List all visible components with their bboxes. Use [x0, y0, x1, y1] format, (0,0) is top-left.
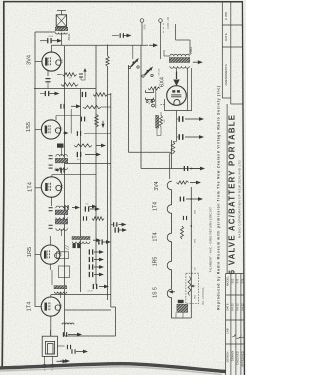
chain junction dots	[190, 198, 192, 200]
wire 240V lead down	[141, 22, 143, 45]
wire jumper y168	[141, 168, 200, 170]
wire rail x107	[107, 45, 109, 57]
capacitor C20	[63, 332, 64, 337]
wire y310 bottom horizontal	[65, 309, 112, 311]
wire 3V4 grid lead	[35, 61, 42, 63]
tube V4 1S5	[41, 120, 60, 139]
wire 1R5 bottom lead	[49, 264, 51, 270]
wire terminal2 lead down	[160, 22, 162, 59]
border frame left	[2, 1, 4, 368]
wire y163 horizontal	[65, 163, 112, 165]
resistor R5	[95, 115, 99, 128]
oscillator coil box	[59, 266, 70, 278]
wire cluster link	[70, 109, 72, 134]
terminal A	[43, 364, 46, 367]
detector arrow	[96, 145, 102, 147]
chassis arrow A10	[89, 206, 93, 208]
resistor R2	[61, 83, 78, 87]
filament chain right rail	[190, 187, 192, 318]
tube V1 1T4	[41, 297, 60, 316]
capacitor C34 with left arrow	[60, 167, 61, 172]
resistor R4	[83, 105, 101, 108]
capacitor C31	[60, 104, 61, 109]
power transformer T4 core	[169, 58, 190, 63]
capacitor C10 trimmer	[49, 225, 53, 226]
output transformer T1 secondary coil	[56, 33, 68, 34]
HT dropper resistor R8	[160, 115, 163, 126]
resistor R3	[93, 93, 108, 97]
AVC capacitor C27	[178, 300, 184, 303]
capacitor C2 below 3V4	[46, 78, 51, 79]
capacitor C4	[82, 92, 83, 97]
wire 3V4 bottom lead	[47, 71, 49, 76]
chassis arrow A1	[71, 105, 77, 107]
IF transformer T3 core2	[55, 219, 68, 224]
grid capacitor C33	[57, 144, 64, 148]
battery terminals B	[152, 99, 155, 102]
capacitor C14 with arrow	[89, 249, 90, 254]
terminal E	[51, 364, 54, 367]
wire jumper y152	[128, 151, 171, 153]
capacitor C17 with arrow	[89, 272, 90, 277]
wire V1 grid lead	[35, 306, 41, 308]
fuse link box	[146, 90, 154, 93]
output transformer T1 core	[55, 27, 68, 30]
resistor R7 grid leak	[92, 217, 104, 221]
resistor R1	[63, 73, 77, 77]
capacitor C11 with arrow	[85, 206, 86, 211]
signature squiggle 1	[232, 333, 237, 337]
rectifier cathode arrow	[176, 72, 178, 80]
detector resistor R6	[74, 144, 92, 147]
wire 1T4 top lead	[51, 175, 53, 177]
volume control wiper arrow	[193, 285, 196, 287]
capacitor C18 padder with arrow	[93, 284, 94, 289]
loop aerial L1 outer	[42, 336, 57, 356]
chassis arrow A2	[76, 351, 84, 353]
border frame bottom band	[0, 364, 226, 372]
chain capacitor C38	[183, 216, 184, 220]
capacitor C19 grid	[83, 216, 84, 220]
margin divider line	[226, 104, 228, 274]
wire 1T4 grid lead	[35, 187, 41, 189]
wire rail x80	[80, 89, 82, 293]
chain capacitor C26 with arrow	[180, 197, 181, 202]
chain resistor R13	[181, 226, 184, 239]
wire rail jog to x115	[111, 306, 116, 308]
wire rail x141	[140, 45, 142, 168]
coil L4 grid coil	[62, 323, 74, 325]
wire 3V4 plate lead	[50, 45, 52, 52]
title block frame	[225, 274, 227, 375]
heater path resistor R16	[171, 142, 175, 154]
signature squiggle 2	[237, 335, 241, 340]
wire chain bottom link	[111, 224, 113, 226]
wire switch feed	[132, 45, 134, 59]
wire top horizontal y46	[51, 44, 148, 46]
chain top arrow	[190, 182, 197, 184]
capacitor C9 trimmer	[49, 207, 53, 208]
capacitor C15 with arrow	[89, 257, 90, 262]
mains terminal 240V	[140, 19, 144, 23]
wire 1S5 plate lead	[55, 116, 57, 121]
capacitor C39 with up arrow	[84, 72, 86, 77]
capacitor C7 trimmer	[49, 155, 53, 156]
wire T3 bottom lead	[61, 229, 63, 236]
volume control dashed box	[186, 273, 199, 303]
wire filter chain	[156, 128, 158, 136]
wire y294 horizontal	[51, 294, 111, 296]
wire 1R5 grid lead	[35, 254, 41, 256]
capacitor C5	[81, 117, 82, 122]
chassis arrow A3	[60, 360, 66, 362]
resistor R17 inline	[106, 56, 109, 67]
capacitor C12 with arrow	[115, 227, 116, 232]
wire heater path down	[170, 153, 173, 155]
filament chain left rail with humps	[167, 181, 171, 318]
dashes near 6X4	[161, 104, 162, 106]
wire battery rail	[155, 86, 157, 108]
wire V1 top lead	[50, 295, 52, 297]
border frame top	[4, 1, 243, 3]
IF transformer T2 top coil	[56, 155, 68, 157]
IF transformer T3 mid coil	[56, 217, 68, 219]
chain bottom arrow	[172, 291, 175, 293]
chassis arrow A8	[185, 136, 200, 138]
signature squiggle 3	[242, 336, 244, 338]
chassis arrow A7	[185, 118, 200, 120]
paper background	[0, 0, 246, 375]
wire B+ rail x128	[127, 65, 129, 152]
power transformer T4 primary	[170, 54, 189, 56]
oscillator coil L3 core	[54, 286, 67, 289]
bias resistor R11h hatched	[156, 115, 159, 128]
capacitor C3 with chassis arrow	[40, 93, 45, 95]
AVC resistor R15 block	[177, 304, 188, 312]
oscillator coil L2 winding	[72, 242, 90, 244]
rectifier loop rectangle	[176, 68, 178, 72]
speaker	[56, 15, 66, 27]
IF transformer T2 bottom coil	[56, 168, 68, 170]
wire V1 bottom lead	[50, 316, 52, 336]
oscillator coil L3 winding	[54, 292, 66, 294]
wire rail x111	[110, 93, 112, 307]
loop aerial L1 middle	[45, 341, 54, 354]
dotted marks under terminal	[162, 23, 164, 25]
chain top resistor R12	[177, 181, 189, 184]
wire 1R5 top lead	[49, 236, 51, 245]
border frame right	[242, 1, 244, 375]
IF transformer T3 top coil	[56, 206, 68, 208]
wire L3 leads	[51, 270, 53, 285]
wire rail x96	[95, 45, 97, 285]
IF transformer T3 core	[55, 210, 68, 215]
volume control potentiometer R14	[188, 277, 191, 296]
tube V3 1T4	[41, 177, 61, 197]
filter capacitor C25	[179, 134, 181, 140]
capacitor C35 with arrow	[64, 205, 65, 210]
voltage selector switch S1	[132, 61, 134, 63]
wire aerial leads	[44, 356, 46, 364]
wire left grid-return rail	[34, 32, 36, 307]
tube V2 1R5	[41, 245, 60, 264]
mixer box	[57, 252, 69, 259]
diode arrow	[63, 132, 65, 134]
wire transformer bottom lead	[60, 33, 62, 45]
wire filter link	[176, 111, 178, 142]
HT arrow from transformer	[193, 61, 199, 63]
wire y88 horizontal	[34, 88, 96, 90]
wire battery L lead	[175, 24, 177, 40]
mains terminal 2	[159, 19, 163, 23]
wire T2 leads	[61, 147, 63, 157]
IF transformer T2 core	[55, 158, 68, 163]
wire 1S5 grid lead	[35, 128, 42, 130]
capacitor C36 dark	[73, 244, 76, 249]
chassis arrow A5	[123, 35, 128, 37]
filter capacitor C24	[179, 116, 181, 122]
chassis arrow A6 on mains wire	[149, 44, 154, 46]
capacitor C28 mid with arrow	[113, 222, 114, 227]
capacitor C6 with arrow	[77, 152, 78, 157]
wire 1T4 bottom lead	[51, 197, 53, 206]
wire speaker top lead	[60, 11, 62, 15]
wire rail x64	[64, 46, 66, 336]
tube V5 3V4	[42, 52, 61, 71]
power transformer T4 secondary	[170, 66, 189, 68]
wire node arrow C1	[51, 40, 58, 42]
arrow A11	[93, 239, 97, 241]
loop aerial L1 inner	[48, 344, 53, 354]
wire transformer left lead	[35, 31, 56, 33]
arrow down A9	[102, 121, 104, 125]
capacitor C21 trimmer	[67, 345, 68, 349]
capacitor C23	[120, 33, 121, 38]
wire chain bottom leads	[171, 317, 173, 319]
chassis arrow A4	[57, 360, 64, 362]
oscillator coil L2 core	[72, 237, 90, 240]
amendments table frame	[221, 2, 223, 98]
wire transformer left lead	[164, 55, 170, 57]
capacitor C16 with arrow	[89, 264, 90, 269]
IF transformer T3 bottom coil	[56, 228, 68, 230]
tube V6 6X4	[167, 86, 187, 106]
capacitor C37 with arrow on B+ line	[184, 166, 185, 171]
capacitor C8 trimmer	[49, 165, 53, 166]
capacitor C13 with arrow	[98, 239, 99, 244]
wire rail x171 upper	[170, 140, 172, 169]
dropping resistor R10	[148, 87, 160, 90]
capacitor C22 trimmer	[71, 349, 72, 353]
capacitor C32	[77, 131, 78, 136]
voltage selector switch S2	[146, 70, 148, 72]
gang arrows	[64, 247, 69, 250]
